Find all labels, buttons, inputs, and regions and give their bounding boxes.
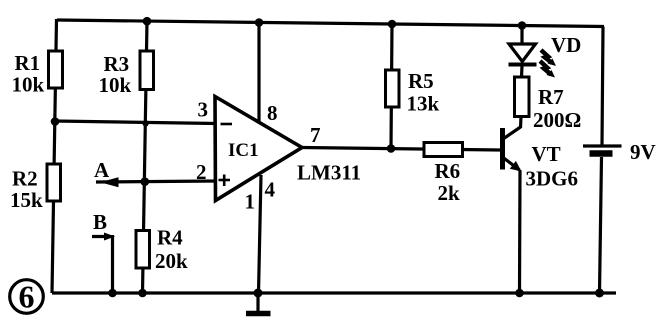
svg-text:9V: 9V <box>630 140 656 164</box>
svg-text:VD: VD <box>551 33 581 57</box>
svg-text:R1: R1 <box>15 51 41 75</box>
figure number 6 <box>10 279 44 315</box>
svg-text:15k: 15k <box>10 188 43 212</box>
svg-text:R6: R6 <box>435 159 461 183</box>
junction R3 crossing <box>142 120 148 126</box>
ground <box>246 293 271 314</box>
svg-text:3DG6: 3DG6 <box>526 167 579 191</box>
resistor R2 <box>47 164 61 201</box>
junction top rail pin8 <box>255 18 264 27</box>
junction top rail R5 <box>388 20 397 29</box>
resistor R1 <box>49 51 63 88</box>
LED VD <box>509 26 557 78</box>
wire R3/R4 vertical branch <box>143 21 148 293</box>
svg-text:1: 1 <box>245 190 256 214</box>
wire bottom ground rail <box>52 291 616 294</box>
svg-text:10k: 10k <box>99 73 132 97</box>
svg-text:13k: 13k <box>407 92 440 116</box>
junction top rail R3 <box>143 17 152 26</box>
svg-text:4: 4 <box>265 178 276 202</box>
wire A input to pin 2 <box>96 181 217 182</box>
node B terminal <box>92 233 115 294</box>
transistor VT <box>503 117 522 294</box>
svg-text:LM311: LM311 <box>297 161 361 185</box>
svg-text:R4: R4 <box>157 226 183 250</box>
svg-text:R2: R2 <box>12 167 38 191</box>
wire pin 8 to top rail <box>257 22 260 122</box>
junction bottom rail ground <box>254 289 263 298</box>
svg-text:10k: 10k <box>12 73 45 97</box>
svg-text:VT: VT <box>532 142 561 166</box>
svg-text:20k: 20k <box>155 249 188 273</box>
wire middle horizontal (R1-R2 node to pin 3) <box>55 121 217 124</box>
resistor R4 <box>136 231 150 269</box>
svg-text:6: 6 <box>19 279 35 315</box>
svg-text:2k: 2k <box>438 181 461 205</box>
resistor R6 <box>424 143 463 157</box>
junction A node <box>141 177 150 186</box>
op-amp IC1 <box>215 97 302 201</box>
svg-text:A: A <box>94 158 110 182</box>
junction bottom rail B <box>108 289 117 298</box>
junction output R5 <box>387 144 396 153</box>
junction bottom rail battery <box>595 289 604 298</box>
wire R5 vertical branch <box>391 24 392 148</box>
svg-text:IC1: IC1 <box>228 140 259 161</box>
svg-text:B: B <box>93 210 107 234</box>
svg-text:2: 2 <box>196 160 207 184</box>
resistor R3 <box>140 51 154 90</box>
wire output pin 7 to transistor base <box>302 148 500 151</box>
junction bottom rail emitter <box>515 289 524 298</box>
svg-text:R7: R7 <box>538 85 564 109</box>
wire pin 1/4 to bottom rail <box>259 175 262 293</box>
svg-text:7: 7 <box>310 123 321 147</box>
resistor R7 <box>515 77 530 117</box>
svg-text:R5: R5 <box>408 69 434 93</box>
junction bottom rail R4 <box>138 289 147 298</box>
resistor R5 <box>386 70 400 107</box>
svg-text:3: 3 <box>198 98 209 122</box>
battery 9V <box>583 27 622 294</box>
junction R1-R2 node <box>51 117 60 126</box>
svg-text:200Ω: 200Ω <box>533 108 581 132</box>
wire top supply rail <box>57 20 604 27</box>
wire left vertical branch <box>52 19 57 293</box>
junction top rail LED <box>518 21 527 30</box>
svg-text:8: 8 <box>267 101 278 125</box>
node A terminal arrow <box>100 177 119 187</box>
